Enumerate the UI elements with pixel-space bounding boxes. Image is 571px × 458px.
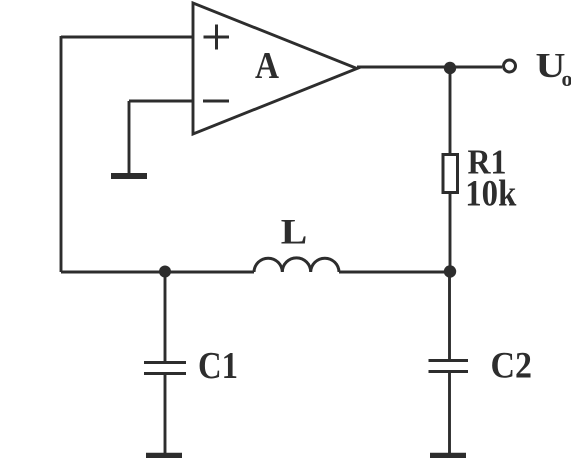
op-amp plus input marker	[204, 25, 230, 50]
resistor R1	[443, 155, 458, 193]
inductor L	[254, 258, 339, 272]
wire output down to R1	[449, 67, 452, 155]
wire inverting input	[129, 100, 193, 103]
node B junction	[444, 265, 456, 277]
op-amp A	[193, 3, 357, 134]
op-amp minus input marker	[203, 100, 229, 103]
svg-text:A: A	[255, 45, 279, 87]
node C1 junction	[159, 266, 171, 278]
wire R1 to node B	[449, 192, 452, 272]
wire bottom right segment	[339, 271, 450, 274]
wire op-amp output	[357, 66, 502, 69]
wire bottom left segment	[61, 271, 254, 274]
wire C2 top	[448, 272, 451, 361]
capacitor C2	[429, 361, 469, 372]
ground (inverting input)	[111, 173, 147, 179]
ground (C2)	[430, 453, 466, 458]
wire noninverting input	[61, 36, 193, 39]
node output junction	[444, 62, 456, 74]
output terminal circle	[504, 60, 516, 72]
svg-text:o: o	[562, 66, 571, 91]
wire C1 top	[164, 272, 167, 363]
svg-text:C1: C1	[198, 345, 238, 387]
wire inverting to ground	[128, 101, 131, 173]
capacitor C1	[144, 363, 186, 374]
svg-text:10k: 10k	[465, 174, 516, 215]
wire left feedback vertical	[60, 36, 63, 272]
wire C1 bottom	[164, 375, 167, 453]
wire C2 bottom	[448, 373, 451, 453]
ground (C1)	[146, 453, 182, 458]
svg-text:C2: C2	[491, 346, 533, 387]
svg-text:L: L	[281, 212, 308, 252]
